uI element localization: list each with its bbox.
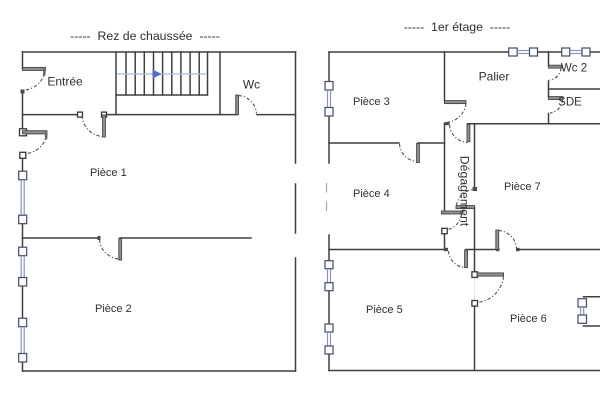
svg-text:Wc 2: Wc 2	[561, 63, 587, 75]
door piece6 leaf	[477, 273, 504, 276]
door piece34 arc	[400, 144, 418, 162]
door entree leaf	[23, 67, 46, 70]
door piece3 leaf	[445, 101, 467, 104]
wall left exterior seg5	[328, 354, 330, 371]
door piece7 leaf	[456, 206, 475, 209]
window ff right rect bottom	[584, 325, 600, 327]
wall right exterior segment 2	[295, 184, 297, 233]
svg-text:Pièce 7: Pièce 7	[504, 181, 541, 193]
door piece4 arc	[446, 215, 462, 231]
door piece6 arc	[476, 277, 504, 303]
door piece6 end post	[472, 301, 478, 307]
wall y250 cap1	[444, 248, 448, 251]
door left2 hinge square	[20, 129, 27, 136]
door hall post B	[102, 112, 107, 117]
window ff top2	[562, 48, 590, 56]
wall piece3/piece4 divider right	[418, 142, 445, 144]
door piece5 arc	[449, 251, 466, 268]
wall wc2/sde divider	[549, 88, 600, 90]
wall left exterior segment 2	[22, 91, 24, 132]
wall y250 seg1	[329, 249, 446, 251]
wall room divider piece1/piece2 right	[120, 237, 251, 239]
wall top exterior seg2	[537, 51, 562, 53]
door sde arc	[550, 100, 563, 114]
wall y124 right of corridor door	[468, 123, 600, 125]
wall wc2/sde left	[548, 52, 550, 66]
wall corridor right lower	[474, 207, 476, 250]
svg-text:Dégagement: Dégagement	[457, 156, 471, 227]
svg-text:Entrée: Entrée	[47, 75, 83, 89]
door piece3 arc	[446, 104, 466, 123]
wall piece5/6 divider upper	[474, 250, 476, 275]
door hall arc	[82, 116, 103, 137]
door hall leaf	[103, 115, 106, 137]
wall wc2/sde left seg3	[548, 114, 550, 124]
stair east wall	[219, 52, 221, 115]
door piece4 end post	[442, 228, 447, 233]
wall left exterior segment 5	[22, 287, 24, 319]
stair tread risers	[126, 52, 208, 95]
svg-text:Palier: Palier	[479, 70, 510, 84]
wall left exterior segment 4	[22, 223, 24, 248]
wall palier bottom cap	[444, 122, 450, 125]
door piece7b arc	[499, 231, 517, 249]
svg-text:----- Rez de chaussée -----: ----- Rez de chaussée -----	[70, 29, 220, 43]
door left2 leaf endcap	[45, 131, 48, 140]
wall left exterior segment 3	[22, 155, 24, 172]
door piece6 hinge post	[472, 272, 478, 278]
wall left exterior seg3	[328, 235, 330, 262]
wall left exterior seg2	[328, 115, 330, 164]
wall y250 cap3	[516, 248, 520, 251]
wall corridor right	[474, 124, 476, 189]
door corridor-palier leaf	[467, 124, 470, 142]
wall top exterior	[23, 51, 296, 53]
door hall post A	[78, 112, 83, 117]
svg-text:----- 1er étage -----: ----- 1er étage -----	[404, 20, 511, 34]
door left2 arc	[26, 134, 47, 154]
window gf W1	[19, 171, 27, 224]
door wc arc	[239, 96, 257, 114]
svg-text:Pièce 4: Pièce 4	[353, 188, 390, 200]
door entree arc	[25, 71, 46, 91]
wall corridor left lower	[444, 231, 446, 250]
door divider arc	[100, 240, 120, 260]
hall wall segment left	[23, 114, 81, 116]
wall y250 seg3	[517, 249, 600, 251]
svg-text:SDE: SDE	[558, 97, 582, 109]
window gf W3	[19, 318, 27, 362]
door entree leaf endcap	[43, 67, 46, 76]
window ff top1	[509, 48, 538, 56]
door piece34 leaf	[417, 144, 420, 163]
window gf W2	[19, 247, 27, 286]
door piece7 hinge cap	[473, 187, 478, 191]
door divider hinge cap	[98, 236, 101, 240]
wall wc2/sde left seg2	[548, 81, 550, 98]
wall right exterior segment 3	[295, 258, 297, 371]
door piece5 leaf	[465, 250, 468, 268]
window ff left top	[325, 82, 333, 117]
wall top exterior seg3	[589, 51, 600, 53]
door left2 end square	[20, 152, 26, 158]
svg-text:Pièce 2: Pièce 2	[95, 303, 132, 315]
svg-text:Wc: Wc	[243, 78, 260, 92]
door left2 leaf	[23, 131, 48, 134]
wall y250 cap2	[496, 248, 500, 251]
hall wall segment mid	[104, 114, 237, 116]
wall room divider piece1/piece2 left	[23, 237, 100, 239]
wall bottom exterior	[329, 370, 600, 372]
wall bottom exterior	[23, 370, 296, 372]
door wc leaf	[236, 95, 239, 115]
door piece4 leaf	[442, 211, 463, 214]
hall wall segment right	[257, 114, 296, 116]
opening dashed marker	[326, 183, 328, 212]
door wc2 arc	[550, 68, 562, 80]
svg-text:Pièce 6: Pièce 6	[510, 313, 547, 325]
wall left exterior seg1	[328, 52, 330, 82]
door entree latch mark	[21, 90, 25, 94]
door sde leaf	[549, 97, 564, 100]
door divider leaf	[119, 239, 122, 261]
wall piece3/piece4 divider left	[329, 142, 399, 144]
opening faint line piece5/6	[474, 275, 476, 304]
door wc2 leaf	[549, 65, 562, 68]
window ff left bottom	[325, 324, 333, 354]
svg-text:Pièce 3: Pièce 3	[353, 96, 390, 108]
wall top exterior seg1	[329, 51, 509, 53]
wall corridor left upper	[444, 124, 446, 213]
door corridor-palier arc	[450, 125, 468, 143]
stair tread base line	[116, 94, 208, 96]
wall y250 seg2	[466, 249, 497, 251]
wall left exterior seg4	[328, 290, 330, 325]
wall palier/piece3 upper	[444, 52, 446, 102]
window ff left mid	[325, 261, 333, 291]
wall piece5/6 divider lower	[474, 304, 476, 371]
wall right exterior segment 1	[295, 52, 297, 163]
door piece7 arc	[457, 190, 475, 206]
stair direction arrow	[153, 70, 162, 79]
wall left exterior segment 1	[22, 52, 24, 69]
window ff right rect top	[584, 296, 600, 298]
window ff right	[578, 299, 587, 324]
svg-text:Pièce 1: Pièce 1	[90, 167, 127, 179]
stair west wall	[115, 52, 117, 115]
wall left exterior segment 6	[22, 362, 24, 371]
door piece7b leaf	[496, 230, 499, 250]
stair direction line	[117, 73, 206, 75]
svg-text:Pièce 5: Pièce 5	[366, 304, 403, 316]
